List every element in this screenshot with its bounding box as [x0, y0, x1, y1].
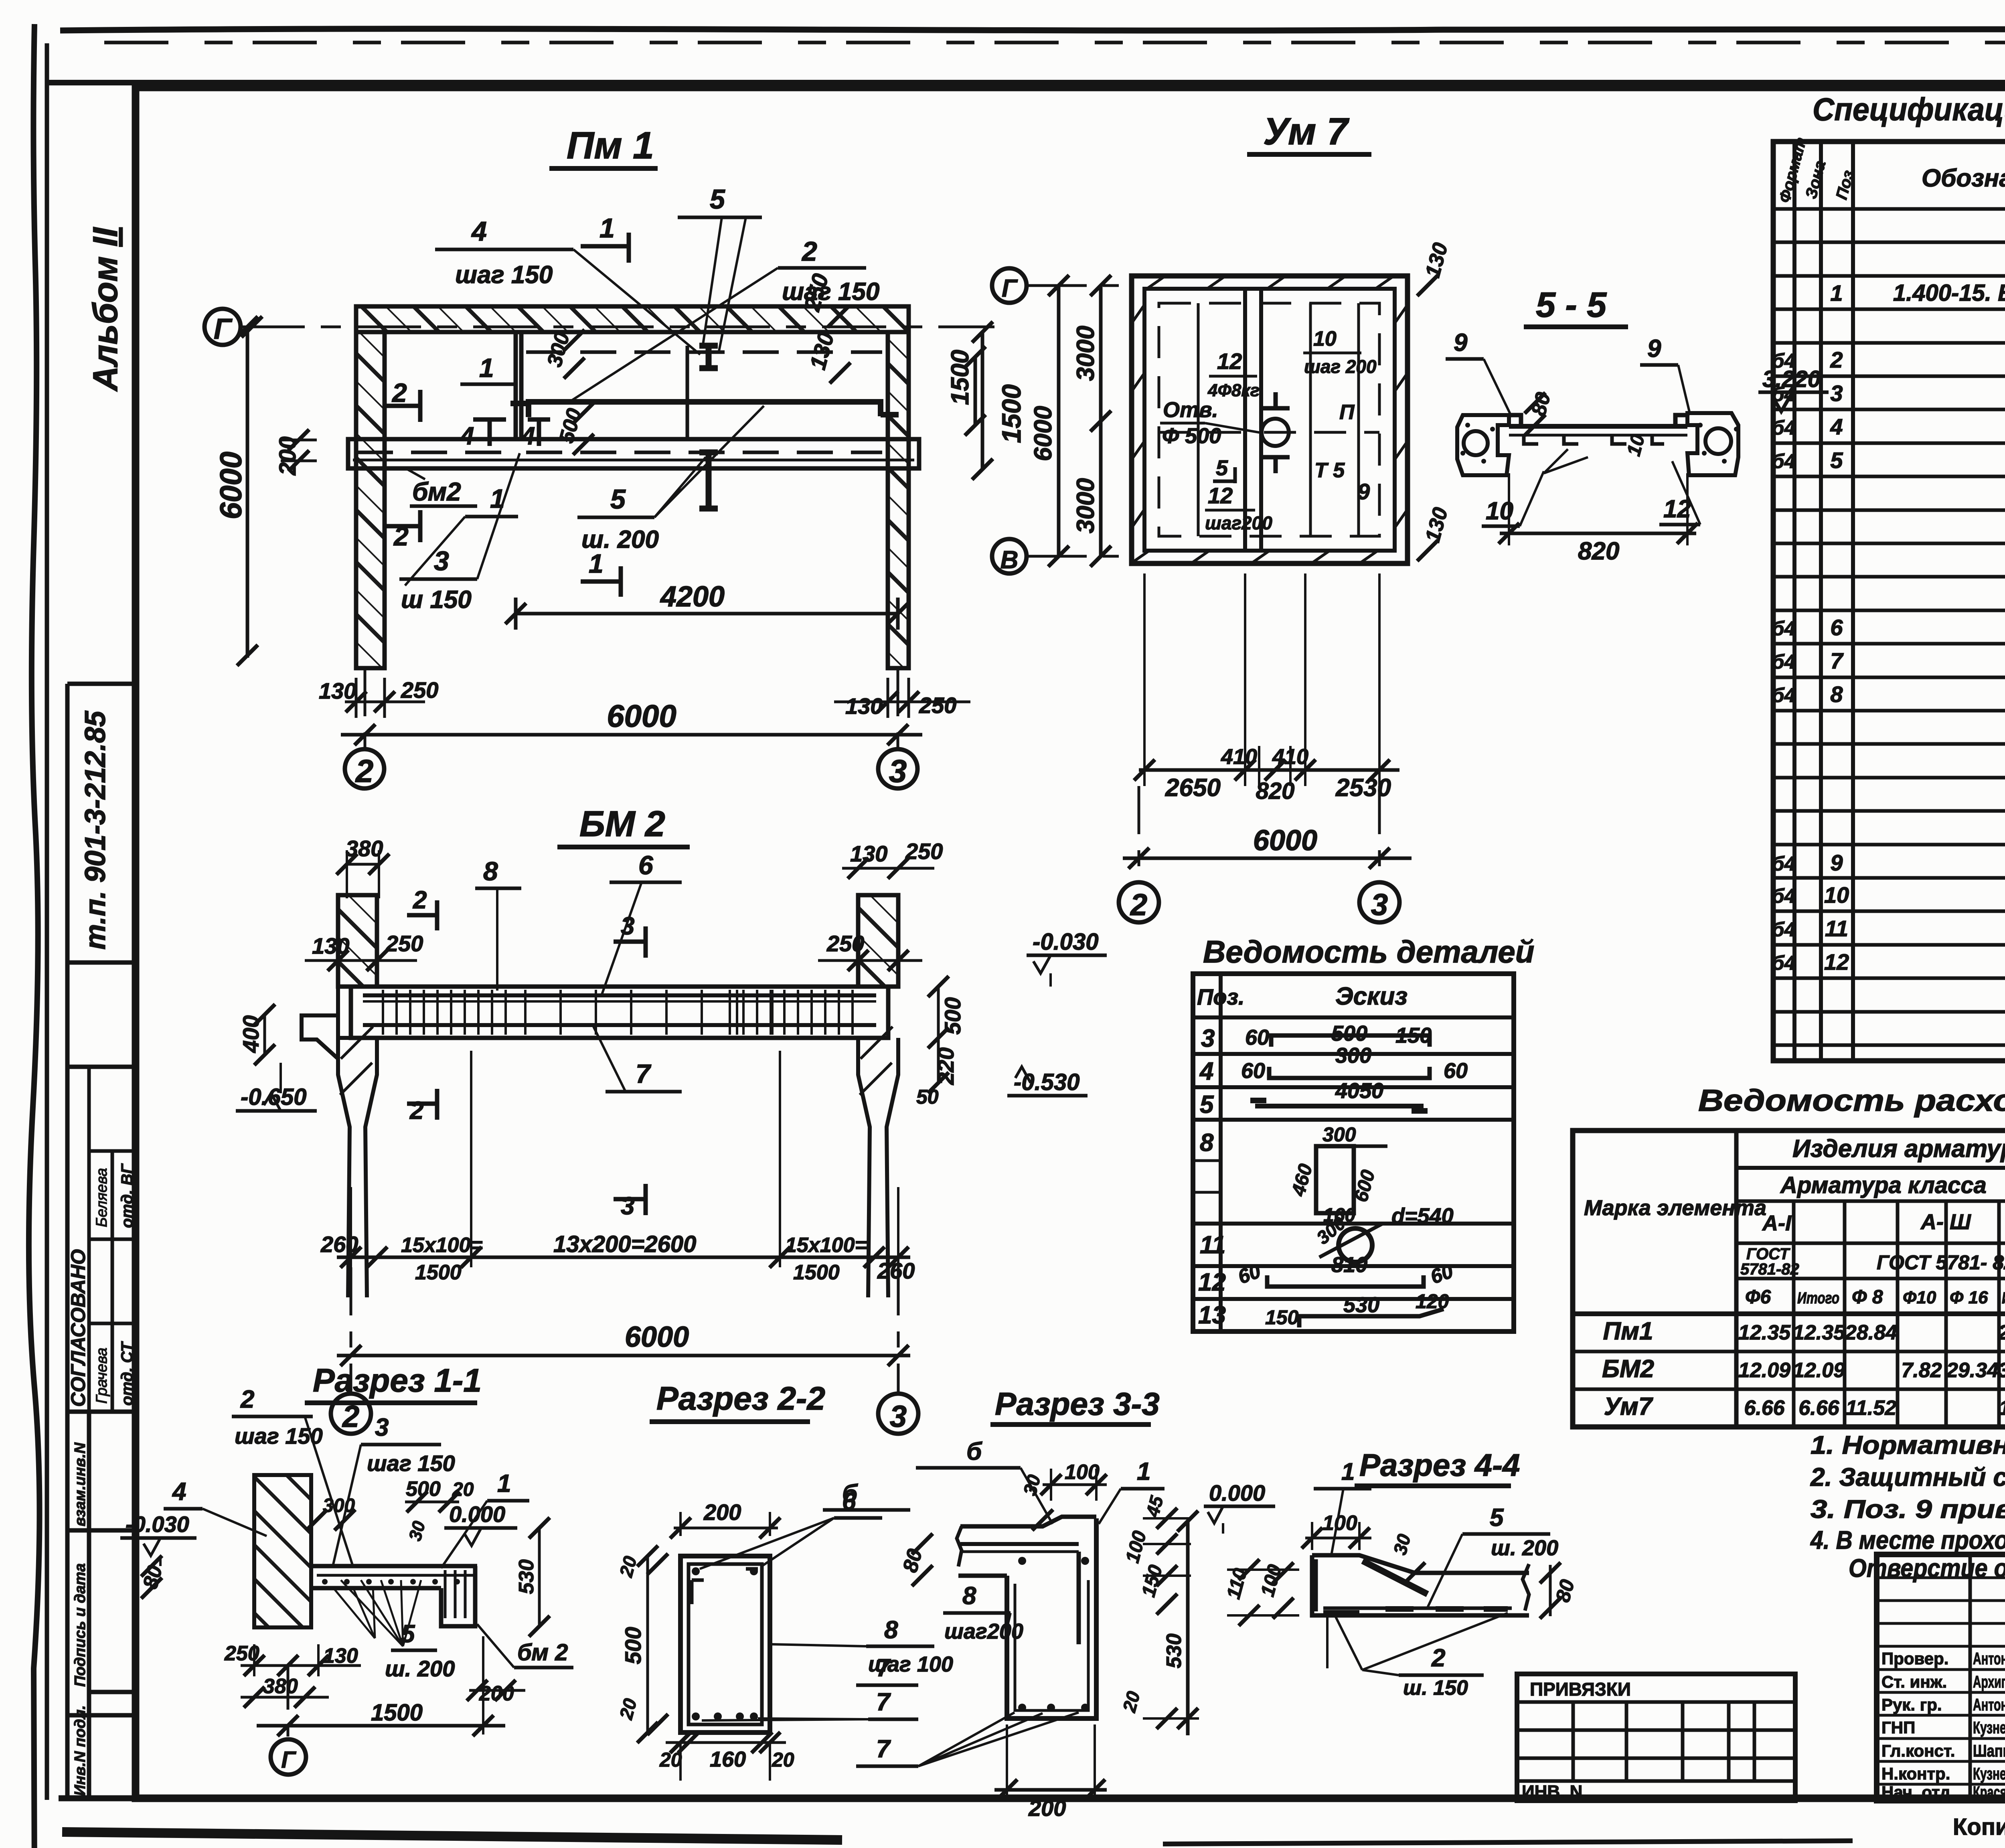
- svg-text:шаг 150: шаг 150: [455, 261, 553, 289]
- Pm1 beam BM2 bar in plan: [348, 439, 919, 468]
- svg-text:6: 6: [638, 850, 654, 880]
- svg-text:7: 7: [1830, 648, 1844, 673]
- svg-text:200: 200: [275, 436, 301, 476]
- svg-text:5: 5: [401, 1620, 415, 1648]
- svg-text:300: 300: [543, 330, 574, 369]
- svg-text:бм 2: бм 2: [517, 1639, 568, 1666]
- svg-text:460: 460: [1288, 1161, 1316, 1198]
- svg-text:530: 530: [515, 1559, 538, 1594]
- svg-text:0.000: 0.000: [449, 1501, 505, 1527]
- svg-text:3: 3: [1201, 1025, 1215, 1052]
- svg-text:9: 9: [1830, 850, 1843, 875]
- svg-text:б4: б4: [1772, 617, 1796, 640]
- svg-text:Нач. отд: Нач. отд: [1881, 1783, 1950, 1801]
- svg-text:4: 4: [1830, 414, 1843, 439]
- left stamp column: [65, 684, 70, 1798]
- svg-text:б4: б4: [1772, 450, 1796, 472]
- svg-text:810: 810: [1331, 1253, 1367, 1277]
- svg-text:отд. ВГ: отд. ВГ: [118, 1163, 136, 1228]
- svg-text:60: 60: [1235, 1260, 1264, 1289]
- svg-text:Ф 500: Ф 500: [1162, 424, 1221, 448]
- svg-text:130: 130: [805, 330, 839, 373]
- svg-text:2530: 2530: [1335, 774, 1391, 802]
- svg-text:1: 1: [1341, 1458, 1355, 1485]
- svg-text:б: б: [842, 1480, 858, 1508]
- svg-text:ш 150: ш 150: [401, 586, 472, 614]
- Um7 inner vertical panel lines: [1197, 303, 1200, 536]
- r33 slab: [960, 1517, 1096, 1526]
- svg-text:1500: 1500: [371, 1700, 423, 1726]
- r22 bottom dims: [666, 1741, 786, 1744]
- svg-text:Ст. инж.: Ст. инж.: [1881, 1672, 1947, 1691]
- steel table outer: [1573, 1131, 2005, 1427]
- svg-text:1: 1: [1830, 280, 1843, 306]
- Pm1 axis 3 line: [897, 668, 899, 749]
- svg-text:7: 7: [876, 1688, 891, 1716]
- Pm1 slab edges: [385, 330, 888, 334]
- svg-text:5: 5: [1200, 1091, 1214, 1119]
- r11 wall hatched: [254, 1475, 311, 1627]
- svg-text:150: 150: [1395, 1023, 1432, 1048]
- svg-text:-0.030: -0.030: [1033, 929, 1098, 955]
- BM2 stirrups left zone: [382, 990, 384, 1035]
- svg-text:2: 2: [391, 378, 407, 407]
- svg-text:3000: 3000: [1072, 326, 1100, 381]
- svg-text:Ведомость расхода стали: Ведомость расхода стали на элемент, кг: [1698, 1084, 2005, 1118]
- svg-text:250: 250: [826, 931, 864, 956]
- svg-text:2: 2: [1431, 1644, 1445, 1672]
- 5-5 left concrete block: [1457, 415, 1509, 475]
- svg-text:5: 5: [610, 484, 626, 515]
- svg-text:Ф 16: Ф 16: [1950, 1288, 1988, 1307]
- svg-text:7: 7: [876, 1654, 891, 1682]
- svg-text:Разрез 3-3: Разрез 3-3: [995, 1386, 1160, 1422]
- svg-text:Кузнецов: Кузнецов: [1973, 1764, 2005, 1783]
- bottom frame extension: [59, 1795, 2005, 1801]
- svg-text:шаг200: шаг200: [944, 1619, 1023, 1643]
- svg-text:шаг 200: шаг 200: [1304, 356, 1377, 377]
- svg-text:8: 8: [962, 1582, 976, 1610]
- r11 slab rebars: [317, 1574, 473, 1577]
- svg-text:20: 20: [615, 1554, 641, 1579]
- svg-text:820: 820: [1256, 778, 1295, 804]
- Um7 outer box: [1132, 276, 1408, 563]
- svg-text:4200: 4200: [660, 581, 725, 613]
- svg-text:130: 130: [1421, 505, 1452, 545]
- r22 rebar dots: [692, 1567, 700, 1575]
- 5-5 right concrete block: [1687, 413, 1738, 475]
- svg-text:1500: 1500: [793, 1261, 840, 1284]
- svg-text:Г: Г: [214, 313, 233, 345]
- svg-text:10: 10: [1313, 327, 1337, 351]
- svg-text:ИНВ. N: ИНВ. N: [1522, 1782, 1582, 1801]
- BM2 dim 6000: [337, 1354, 910, 1358]
- BM2 left shelf step: [302, 1015, 338, 1059]
- BM2 beam body: [351, 987, 888, 1038]
- Pm1 vert dim 6000 left: [246, 327, 249, 658]
- svg-text:1. Нормативная нагрузка на: 1. Нормативная нагрузка на площадку -15 …: [1811, 1431, 2005, 1459]
- svg-text:Копировал:: Копировал:: [1953, 1814, 2005, 1840]
- svg-text:1500: 1500: [415, 1261, 462, 1284]
- svg-text:В: В: [1000, 546, 1019, 574]
- Um7 left dims: [1099, 286, 1103, 556]
- svg-text:6.66: 6.66: [1798, 1396, 1839, 1420]
- svg-text:500: 500: [940, 997, 965, 1035]
- BM2 dim 500 220 right: [937, 987, 940, 1083]
- svg-text:380: 380: [346, 836, 383, 861]
- svg-text:Альбом II: Альбом II: [86, 227, 125, 392]
- svg-text:20: 20: [659, 1749, 682, 1771]
- svg-text:Провер.: Провер.: [1881, 1649, 1948, 1668]
- svg-text:Разрез 4-4: Разрез 4-4: [1359, 1447, 1520, 1483]
- svg-text:28.84: 28.84: [1845, 1321, 1897, 1344]
- svg-text:т.п. 901-3-212.85: т.п. 901-3-212.85: [79, 711, 111, 950]
- Pm1 dim bottom left 250: [345, 701, 425, 703]
- svg-text:12: 12: [1198, 1268, 1226, 1296]
- svg-text:820: 820: [1578, 537, 1619, 565]
- svg-text:11: 11: [1825, 916, 1848, 941]
- Pm1 vert dim 1500 right: [981, 332, 984, 469]
- svg-text:5781-82: 5781-82: [1740, 1260, 1799, 1278]
- svg-text:500: 500: [406, 1477, 441, 1501]
- svg-text:Пм 1: Пм 1: [567, 124, 654, 167]
- svg-text:ГНП: ГНП: [1881, 1718, 1915, 1737]
- Pm1 anchor symbol top: [699, 346, 718, 368]
- Pm1 wall bottom ticks: [356, 666, 385, 671]
- svg-text:5: 5: [710, 184, 725, 215]
- svg-text:3: 3: [375, 1414, 389, 1441]
- r44 section shape: [1312, 1555, 1529, 1573]
- Pm1 dim 4200: [516, 612, 898, 616]
- svg-text:П: П: [1339, 401, 1355, 424]
- Um7 dim 6000 bottom: [1123, 857, 1412, 860]
- Pm1 slab panel divider double line: [514, 334, 518, 440]
- svg-text:8: 8: [1200, 1129, 1214, 1157]
- Um7 axis V: [992, 539, 1027, 573]
- svg-text:12.35: 12.35: [1793, 1321, 1845, 1344]
- Um7 wall corner hatches: [1131, 276, 1165, 563]
- scan paper edge top: [60, 28, 2005, 30]
- svg-text:Ум7: Ум7: [1604, 1393, 1653, 1420]
- svg-text:Г: Г: [1002, 275, 1018, 302]
- r33 vertical rebar: [1077, 1552, 1081, 1644]
- BM2 wall hatch lower small: [340, 1027, 373, 1095]
- svg-text:4: 4: [460, 422, 474, 450]
- 5-5 slab lines: [1509, 424, 1687, 429]
- svg-text:500: 500: [620, 1627, 646, 1664]
- Um7 axis G: [992, 268, 1027, 303]
- BM2 dim 400 left: [263, 1015, 266, 1055]
- svg-text:12.35: 12.35: [1738, 1321, 1791, 1344]
- svg-text:7.82: 7.82: [1901, 1359, 1942, 1382]
- svg-text:20: 20: [772, 1749, 794, 1771]
- BM2 dim 380 top left: [347, 863, 379, 866]
- svg-text:4: 4: [471, 216, 487, 247]
- svg-text:30: 30: [405, 1519, 429, 1543]
- svg-text:2. Защитный слой бетона в: 2. Защитный слой бетона в пм1- 15 мм.: [1810, 1463, 2005, 1491]
- svg-text:Итого: Итого: [1797, 1289, 1839, 1307]
- svg-text:б4: б4: [1772, 885, 1796, 907]
- r11 dims 250 130: [241, 1664, 361, 1667]
- r44 bottom rebar and plates: [1323, 1607, 1512, 1610]
- r44 break mark right: [1523, 1564, 1529, 1611]
- svg-text:8: 8: [884, 1616, 898, 1644]
- svg-text:шаг 150: шаг 150: [367, 1451, 455, 1476]
- svg-text:Обозначение: Обозначение: [1922, 164, 2005, 192]
- svg-text:6000: 6000: [1253, 825, 1317, 857]
- svg-text:5: 5: [1216, 456, 1228, 480]
- svg-text:б4: б4: [1772, 918, 1796, 940]
- svg-text:ш. 150: ш. 150: [1403, 1676, 1468, 1700]
- Pm1 dim 200 left: [281, 439, 317, 442]
- svg-text:БМ 2: БМ 2: [579, 804, 665, 844]
- r11 dim 1500: [257, 1724, 505, 1728]
- svg-text:Марка элемента: Марка элемента: [1584, 1196, 1766, 1220]
- svg-text:400: 400: [238, 1015, 263, 1053]
- svg-text:250: 250: [401, 677, 438, 703]
- svg-text:530: 530: [1162, 1633, 1186, 1668]
- Um7 axis 3 circle: [1378, 786, 1381, 882]
- svg-text:3000: 3000: [1072, 478, 1100, 533]
- 5-5 concrete speckles: [1465, 423, 1470, 428]
- svg-text:60: 60: [1245, 1025, 1269, 1050]
- svg-text:12: 12: [1217, 349, 1242, 374]
- r11 fan leaders small: [333, 1587, 375, 1638]
- BM2 stirrups mid zone: [524, 990, 527, 1035]
- Um7 inner box: [1144, 289, 1395, 551]
- svg-text:1500: 1500: [946, 350, 974, 405]
- svg-text:А-I: А-I: [1762, 1211, 1792, 1235]
- svg-text:1: 1: [589, 549, 604, 578]
- r11 dim 530 rot right: [538, 1528, 541, 1626]
- svg-text:1: 1: [497, 1470, 511, 1497]
- svg-text:Отв.: Отв.: [1163, 398, 1218, 422]
- svg-text:15х100=: 15х100=: [785, 1234, 867, 1257]
- svg-text:8: 8: [483, 856, 498, 886]
- svg-text:d=540: d=540: [1391, 1204, 1454, 1228]
- svg-text:80: 80: [1527, 390, 1555, 418]
- svg-text:Ф10: Ф10: [1903, 1288, 1936, 1307]
- svg-text:13: 13: [1198, 1301, 1226, 1329]
- svg-text:ПРИВЯЗКИ: ПРИВЯЗКИ: [1530, 1679, 1631, 1700]
- svg-text:3. Поз. 9 приварить к поз: 3. Поз. 9 приварить к поз. 12.: [1811, 1495, 2005, 1524]
- svg-text:Гл.конст.: Гл.конст.: [1881, 1741, 1955, 1760]
- BM2 stirrups right zone: [729, 990, 731, 1035]
- r44 dim 100 top: [1305, 1537, 1371, 1540]
- svg-text:Итого: Итого: [2002, 1289, 2005, 1307]
- svg-text:4: 4: [1199, 1058, 1213, 1085]
- svg-text:1: 1: [1137, 1458, 1150, 1485]
- svg-text:8: 8: [1830, 682, 1843, 707]
- svg-text:20: 20: [452, 1479, 474, 1500]
- vedomost detaley table grid: [1193, 974, 1514, 1331]
- privyazki small table: [1517, 1674, 1795, 1801]
- svg-text:200: 200: [703, 1499, 741, 1525]
- svg-text:2: 2: [355, 753, 374, 789]
- r33 dim 530 vert: [1186, 1521, 1190, 1735]
- r11 axis G circle: [287, 1666, 290, 1737]
- svg-text:11.52: 11.52: [1999, 1396, 2005, 1420]
- svg-text:б4: б4: [1772, 383, 1796, 405]
- Pm1 marks 4 pair: [473, 417, 506, 422]
- svg-text:Н.контр.: Н.контр.: [1881, 1764, 1950, 1783]
- svg-text:б4: б4: [1772, 853, 1796, 875]
- svg-text:-0.030: -0.030: [126, 1512, 189, 1537]
- steel table verticals: [1734, 1131, 1739, 1427]
- BM2 beam bottom rebar: [363, 1023, 876, 1027]
- Pm1 dashed mid line: [357, 451, 513, 454]
- svg-text:130: 130: [319, 678, 356, 703]
- Pm1 axis 3 circle: [878, 749, 917, 788]
- svg-text:20: 20: [615, 1696, 641, 1722]
- svg-text:Ум 7: Ум 7: [1263, 110, 1350, 153]
- svg-text:7: 7: [876, 1735, 891, 1763]
- svg-text:Антонова: Антонова: [1973, 1695, 2005, 1714]
- svg-text:9: 9: [1357, 479, 1370, 504]
- BM2 axis circles: [350, 1267, 352, 1394]
- svg-text:6.66: 6.66: [1744, 1396, 1785, 1420]
- svg-text:Разрез 1-1: Разрез 1-1: [313, 1362, 482, 1399]
- svg-text:300: 300: [1335, 1044, 1371, 1068]
- svg-text:100: 100: [1122, 1528, 1150, 1565]
- svg-text:12: 12: [1208, 483, 1233, 508]
- svg-text:2: 2: [801, 236, 817, 267]
- svg-text:2: 2: [1130, 888, 1147, 922]
- svg-text:530: 530: [1343, 1293, 1379, 1317]
- svg-text:Т 5: Т 5: [1314, 459, 1345, 482]
- Pm1 dim bottom right 130 250: [834, 701, 970, 703]
- svg-text:20: 20: [1118, 1689, 1144, 1714]
- svg-text:9: 9: [1454, 329, 1468, 357]
- sheet top line: [47, 80, 2005, 85]
- svg-text:БМ2: БМ2: [1602, 1355, 1654, 1383]
- svg-text:160: 160: [710, 1747, 746, 1771]
- BM2 bottom dim chain: [337, 1256, 910, 1259]
- svg-text:500: 500: [1331, 1021, 1367, 1046]
- svg-text:ш. 200: ш. 200: [385, 1656, 455, 1681]
- svg-text:Грачева: Грачева: [93, 1347, 110, 1404]
- r11 dim 380: [241, 1696, 329, 1699]
- svg-text:28.84: 28.84: [1998, 1321, 2005, 1344]
- svg-text:Рук. гр.: Рук. гр.: [1881, 1695, 1942, 1714]
- r33 rebar dots: [1018, 1557, 1026, 1565]
- title block left grid: [1877, 1576, 2005, 1579]
- svg-text:3: 3: [889, 753, 907, 789]
- svg-text:3: 3: [1830, 381, 1843, 406]
- svg-text:4: 4: [172, 1478, 186, 1506]
- svg-text:4050: 4050: [1335, 1079, 1383, 1103]
- svg-text:3: 3: [621, 912, 634, 940]
- r11 dims 500 20 top: [405, 1501, 459, 1504]
- scan paper edge left: [29, 24, 40, 1848]
- svg-text:б: б: [966, 1438, 982, 1465]
- r11 slab band: [311, 1564, 477, 1568]
- svg-text:2: 2: [240, 1386, 254, 1413]
- svg-text:б4: б4: [1772, 350, 1796, 372]
- svg-text:б4: б4: [1772, 416, 1796, 439]
- svg-text:Ф6: Ф6: [1745, 1287, 1771, 1308]
- svg-text:Изделия арматурные: Изделия арматурные: [1792, 1135, 2005, 1163]
- 5-5 angle ends: [1509, 415, 1687, 426]
- r22 dim 200 top: [674, 1527, 778, 1530]
- svg-text:60: 60: [1241, 1059, 1265, 1083]
- svg-text:шаг200: шаг200: [1205, 513, 1272, 533]
- Pm1 left wall hatched: [356, 332, 385, 668]
- svg-text:Ф 8: Ф 8: [1852, 1287, 1883, 1308]
- svg-text:Ведомость деталей: Ведомость деталей: [1203, 934, 1534, 969]
- svg-text:2: 2: [1830, 347, 1843, 373]
- svg-text:45: 45: [1142, 1493, 1167, 1519]
- svg-text:60: 60: [1444, 1059, 1468, 1083]
- svg-text:СОГЛАСОВАНО: СОГЛАСОВАНО: [67, 1249, 89, 1407]
- svg-text:1500: 1500: [996, 384, 1026, 443]
- svg-text:4. В месте прохода отвер: 4. В месте прохода отверстия арматуру вы…: [1810, 1526, 2005, 1554]
- svg-text:1: 1: [479, 353, 494, 383]
- svg-text:1: 1: [599, 213, 615, 243]
- svg-text:250: 250: [385, 931, 423, 956]
- Pm1 axis 2 circle: [345, 749, 384, 788]
- spec table grid: [1773, 142, 2005, 1061]
- 5-5 slab rebar hooks: [1524, 435, 1664, 444]
- svg-text:Беляева: Беляева: [93, 1168, 110, 1227]
- svg-text:30: 30: [1389, 1532, 1415, 1557]
- svg-text:250: 250: [905, 839, 943, 864]
- svg-text:Арматура класса: Арматура класса: [1780, 1172, 1987, 1198]
- svg-text:150: 150: [1265, 1306, 1299, 1329]
- svg-text:11: 11: [1200, 1231, 1225, 1259]
- svg-text:0.000: 0.000: [1209, 1480, 1265, 1506]
- svg-text:А- Ш: А- Ш: [1920, 1210, 1971, 1234]
- Pm1 anchor symbol mid: [699, 452, 718, 509]
- svg-text:130: 130: [323, 1644, 358, 1668]
- svg-text:Г: Г: [281, 1747, 296, 1773]
- r33 dim 200 bottom: [994, 1788, 1107, 1792]
- svg-text:6000: 6000: [1029, 406, 1057, 461]
- svg-text:50: 50: [916, 1086, 939, 1108]
- svg-text:13х200=2600: 13х200=2600: [553, 1231, 696, 1257]
- svg-text:130: 130: [845, 693, 883, 719]
- svg-text:4Ф8кг: 4Ф8кг: [1207, 381, 1260, 400]
- svg-text:2650: 2650: [1165, 774, 1221, 802]
- svg-text:Подпись и дата: Подпись и дата: [72, 1563, 89, 1687]
- Pm1 main rebar with hooks: [529, 402, 881, 417]
- svg-text:380: 380: [263, 1675, 298, 1698]
- BM2 left lower pier: [338, 1038, 377, 1297]
- svg-text:100: 100: [1322, 1512, 1357, 1535]
- svg-text:5 - 5: 5 - 5: [1536, 285, 1607, 324]
- svg-text:1: 1: [490, 484, 505, 513]
- BM2 right wall upper hatched: [858, 895, 898, 987]
- svg-text:б4: б4: [1772, 952, 1796, 974]
- BM2 left wall pocket hatch: [338, 987, 351, 1038]
- Um7 central hole circle: [1262, 419, 1289, 446]
- svg-text:Красявин: Красявин: [1973, 1783, 2005, 1801]
- svg-text:отд. СТ: отд. СТ: [118, 1341, 136, 1406]
- svg-text:бм2: бм2: [412, 477, 461, 506]
- svg-text:37.16: 37.16: [1998, 1359, 2005, 1382]
- svg-text:Инв.N подл.: Инв.N подл.: [72, 1705, 89, 1796]
- svg-text:Пм1: Пм1: [1603, 1317, 1653, 1345]
- svg-text:б4: б4: [1772, 684, 1796, 707]
- svg-text:5: 5: [1830, 448, 1843, 473]
- Pm1 axis G dash line: [241, 326, 994, 328]
- r44 dim 80 right: [1549, 1565, 1552, 1616]
- r22 stirrup rect outer: [680, 1556, 770, 1732]
- svg-text:Архипова: Архипова: [1973, 1672, 2005, 1691]
- r22 dim 500 left: [646, 1556, 649, 1732]
- svg-text:2: 2: [413, 886, 427, 914]
- bottom scan streaks: [62, 1832, 842, 1840]
